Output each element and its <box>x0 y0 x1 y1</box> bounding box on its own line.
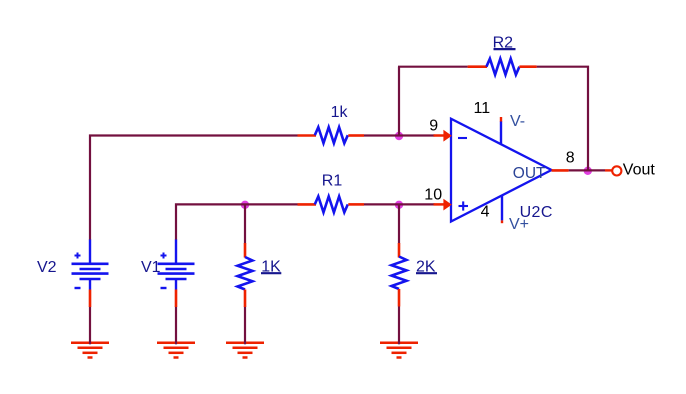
wire junction to resistor 1K <box>244 204 246 243</box>
wire 1k output to pin 9 <box>364 134 435 136</box>
svg-text:8: 8 <box>566 149 575 166</box>
ground (V1) <box>157 343 195 358</box>
svg-text:9: 9 <box>429 117 438 134</box>
svg-text:4: 4 <box>481 203 490 220</box>
wire V1 riser to non-inverting row <box>176 204 298 240</box>
svg-text:V+: V+ <box>509 216 529 233</box>
svg-text:Vout: Vout <box>623 162 656 179</box>
svg-text:R1: R1 <box>322 173 343 190</box>
wire feedback top left <box>398 66 468 68</box>
pin 9 input arrow <box>434 130 452 142</box>
svg-text:10: 10 <box>424 187 442 204</box>
wire junction to resistor 2K <box>398 204 400 243</box>
wire V1 to ground <box>175 307 177 345</box>
ground (V2) <box>71 343 109 358</box>
svg-text:V-: V- <box>510 113 525 130</box>
resistor 1K (to ground) <box>238 243 253 307</box>
wire resistor 2K to ground <box>398 307 400 345</box>
label 1K <box>261 258 281 275</box>
svg-text:V1: V1 <box>141 259 161 276</box>
wire resistor 1K to ground <box>244 307 246 345</box>
label 2K <box>416 258 437 275</box>
op-amp plus input mark <box>459 201 469 210</box>
resistor R1 (non-inverting input) <box>298 196 365 212</box>
junction node at output/feedback <box>584 167 592 175</box>
wire feedback top right and right riser <box>537 67 588 170</box>
junction node at R1/2K <box>395 201 403 209</box>
svg-text:1k: 1k <box>331 104 349 121</box>
op-amp minus input mark <box>458 137 467 139</box>
wire V2 to ground <box>89 307 91 345</box>
output terminal Vout <box>605 166 621 175</box>
pin 10 input arrow <box>434 199 452 211</box>
wire feedback left riser <box>398 67 400 135</box>
label R2 <box>493 34 516 51</box>
ground (1K) <box>226 343 264 358</box>
pin 8 output lead <box>552 169 569 172</box>
pin 4 V+ stub <box>501 195 503 223</box>
junction node at 1k/feedback <box>395 132 403 140</box>
voltage source V1 <box>158 240 195 308</box>
svg-text:11: 11 <box>474 100 491 117</box>
junction node at R1/1K <box>241 201 249 209</box>
resistor 2K (to ground) <box>392 243 407 307</box>
resistor R2 (feedback) <box>468 59 537 75</box>
voltage source V2 <box>72 240 109 308</box>
ground (2K) <box>380 343 418 358</box>
svg-text:OUT: OUT <box>513 165 546 182</box>
svg-text:V2: V2 <box>37 259 57 276</box>
pin 11 V- stub <box>500 117 502 144</box>
resistor 1k (inverting input) <box>298 127 365 143</box>
wire op-amp output to terminal <box>569 169 605 171</box>
wire R1 output to pin 10 <box>364 203 435 205</box>
wire V2 riser to inverting row <box>90 136 298 241</box>
op-amp U2C triangle <box>451 119 552 222</box>
